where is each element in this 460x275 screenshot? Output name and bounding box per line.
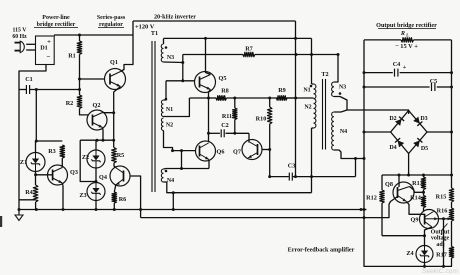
svg-text:Z3: Z3	[79, 192, 86, 199]
svg-text:115 V: 115 V	[13, 28, 28, 34]
wire Z3 to rail	[95, 201, 97, 210]
svg-text:R14: R14	[410, 195, 421, 202]
svg-text:R1: R1	[68, 53, 76, 60]
Q5 emitter down	[209, 90, 211, 143]
Q7 collector drop	[248, 133, 250, 142]
svg-text:Q6: Q6	[217, 149, 225, 156]
svg-text:R7: R7	[245, 46, 253, 53]
svg-text:N1: N1	[303, 88, 310, 94]
wire Q2 collector to Q1 emitter line	[103, 112, 114, 114]
wiper wire to R16	[438, 218, 450, 220]
Q6 base wire	[173, 150, 196, 152]
svg-text:R2: R2	[66, 100, 74, 107]
resistor R3	[60, 145, 65, 158]
svg-text:D3: D3	[420, 116, 427, 122]
svg-text:R8: R8	[221, 88, 229, 95]
svg-text:R3: R3	[48, 148, 56, 155]
wire R2 to Q2 base	[80, 108, 89, 115]
ground symbol	[18, 210, 20, 216]
R7 tap vertical	[182, 55, 184, 81]
svg-text:Q7: Q7	[233, 149, 241, 156]
svg-text:R11: R11	[222, 113, 232, 120]
rail2 drop to bottom rail	[364, 218, 452, 267]
N3 top lead to line	[163, 38, 165, 44]
svg-text:R5: R5	[117, 152, 125, 159]
resistor R5	[112, 148, 117, 163]
N4 top lead	[164, 168, 167, 171]
svg-text:T1: T1	[151, 30, 158, 37]
transformer T1 core	[151, 41, 153, 192]
pot adjust annotation	[442, 224, 448, 231]
svg-text:+: +	[47, 39, 51, 46]
svg-text:L: L	[405, 33, 409, 38]
svg-text:Output: Output	[431, 230, 450, 236]
node Q1 base tap	[78, 78, 81, 81]
diode bridge D2 D3 D4 D5	[391, 111, 427, 154]
line N3-top to T2 primary top	[164, 37, 312, 39]
wire Q1 emitter down	[114, 87, 121, 148]
svg-text:60 Hz: 60 Hz	[12, 34, 27, 40]
T1 winding N4	[161, 169, 163, 182]
N4(T1) top lead line	[166, 168, 209, 170]
wire D1+ output to R1 and +120 rail corner	[54, 34, 133, 36]
svg-text:N2: N2	[304, 105, 311, 111]
N2 bottom lead to Q6 base	[164, 131, 173, 151]
drop to rail1	[172, 193, 174, 210]
T2 primary winding N1/N2	[314, 84, 316, 128]
svg-text:R6: R6	[119, 196, 127, 203]
svg-text:N4: N4	[340, 129, 347, 135]
svg-text:C5: C5	[430, 78, 438, 85]
ground rail (rail1)	[19, 209, 367, 211]
resistor R4	[33, 185, 38, 202]
bridge left vertex to bus	[364, 131, 391, 133]
svg-text:T2: T2	[321, 71, 328, 78]
svg-text:R12: R12	[366, 195, 377, 202]
wire plug to D1	[26, 43, 35, 45]
amp bottom edge	[382, 235, 425, 237]
resistor R1	[79, 35, 81, 41]
svg-text:D4: D4	[389, 145, 396, 151]
wire Q3 base	[36, 174, 53, 176]
wire R1 bottom down to base tap, C1, R2	[79, 54, 81, 95]
wire Q2 emitter down to node line	[102, 128, 105, 141]
wire Z2 to Z3	[95, 168, 97, 183]
wire C1 node down to Z1	[35, 90, 37, 142]
svg-text:Z4: Z4	[406, 250, 413, 257]
svg-text:Q8: Q8	[385, 181, 393, 188]
N3 top lead from R7 line	[334, 55, 338, 83]
N4 bottom lead	[164, 182, 312, 193]
svg-text:Power-line: Power-line	[42, 15, 70, 21]
svg-text:R4: R4	[25, 189, 33, 196]
svg-text:Series-pass: Series-pass	[97, 15, 126, 21]
error amp top edge	[382, 174, 452, 176]
centre tap N3/N4 to bridge top	[334, 97, 409, 115]
T1 winding N3	[161, 44, 163, 62]
svg-text:C1: C1	[25, 76, 33, 83]
svg-text:R9: R9	[278, 87, 286, 94]
vertical T2 primary bottom down to N4 line	[311, 128, 313, 193]
resistor R2	[77, 95, 82, 108]
svg-text:N2: N2	[166, 123, 173, 129]
svg-text:bridge rectifier: bridge rectifier	[37, 22, 76, 28]
T1 centre tap to R8 line	[164, 98, 190, 117]
primary leads	[312, 83, 314, 85]
vertical N3-top line down to T2 primary top	[311, 38, 313, 84]
svg-text:R15: R15	[436, 194, 447, 201]
Q6 emitter down	[208, 160, 210, 169]
node line y=140 (Q2 emitter / Z2 / R5)	[80, 139, 114, 141]
svg-text:SeekIC.com: SeekIC.com	[422, 268, 458, 275]
vertical from +120 corner down through centre tap to C3 line	[295, 21, 297, 177]
cross-couple wire	[181, 151, 183, 169]
output bus right edge	[451, 40, 453, 188]
T2 secondary N3	[332, 82, 334, 97]
wire R3 bottom to Q3 collector	[61, 158, 63, 168]
drop from wiper line to bottom rail	[443, 219, 445, 267]
wire rail to R4 bottom	[19, 199, 36, 201]
wire Q3 emitter to ground rail	[61, 183, 64, 210]
N3 bottom lead	[164, 61, 183, 64]
svg-text:Q1: Q1	[110, 59, 118, 66]
bypass wire to Z3 top	[80, 140, 96, 181]
svg-text:N3: N3	[339, 85, 346, 91]
wire D1- to left rail	[19, 65, 46, 210]
bridge rectifier D1 (box)	[36, 36, 55, 65]
svg-text:C2: C2	[221, 122, 229, 129]
Q5 base wire	[166, 80, 195, 82]
T1 winding N2	[161, 118, 163, 131]
Q7 base wire to R10 line	[262, 149, 270, 151]
svg-text:− 15 V +: − 15 V +	[395, 43, 418, 50]
svg-text:N3: N3	[167, 55, 174, 61]
svg-text:Q9: Q9	[411, 217, 419, 224]
svg-text:C4: C4	[393, 61, 401, 68]
Q9 emitter drop	[425, 227, 433, 236]
svg-text:N4: N4	[167, 178, 174, 184]
svg-text:adj: adj	[436, 242, 444, 248]
wire Q4 base to feedback line	[130, 176, 141, 218]
+120V rail top	[133, 20, 296, 22]
svg-text:R: R	[400, 30, 405, 37]
svg-text:Error-feedback amplifier: Error-feedback amplifier	[288, 247, 355, 254]
bridge bottom drop to amp top edge	[408, 154, 410, 176]
resistor R6	[112, 192, 117, 203]
svg-text:−: −	[47, 53, 51, 61]
wire Q1 base	[80, 78, 105, 80]
svg-text:R17: R17	[436, 252, 447, 259]
output bus left edge	[363, 40, 365, 218]
T2 secondary N4	[332, 112, 334, 150]
scan artifact bottom-left	[0, 216, 2, 227]
svg-text:D2: D2	[389, 116, 396, 122]
T1 winding N1	[161, 100, 163, 117]
svg-text:Output bridge rectifier: Output bridge rectifier	[376, 22, 437, 29]
svg-text:+: +	[403, 64, 407, 71]
node line y=141 left (Z1 / R3)	[36, 140, 62, 142]
svg-text:regulator: regulator	[99, 22, 123, 28]
feedback rail (rail2)	[141, 217, 364, 219]
svg-text:C3: C3	[288, 163, 296, 170]
bridge right vertex to right edge	[427, 131, 452, 133]
wire R5 bottom to Q4 collector	[114, 163, 116, 168]
svg-text:Q4: Q4	[99, 174, 107, 181]
N1 top lead to Q5 base node	[164, 81, 167, 100]
svg-text:Q3: Q3	[70, 169, 78, 176]
svg-text:N1: N1	[166, 107, 173, 113]
svg-text:D5: D5	[421, 146, 428, 152]
N4 bottom lead to bus	[334, 150, 364, 159]
svg-text:20-kHz inverter: 20-kHz inverter	[154, 14, 196, 21]
svg-text:Q5: Q5	[219, 75, 227, 82]
Q8 emitter to rail2	[389, 197, 398, 205]
svg-text:Q2: Q2	[93, 102, 101, 109]
node R1 top	[78, 34, 81, 37]
wire Z1 bottom to R4 and Q3 base tap	[35, 172, 37, 186]
wire R14 to Q9 collector	[423, 208, 425, 212]
C3 riser	[355, 159, 357, 177]
R8/R9 node line	[189, 97, 208, 99]
rail2 extension to Q8 emitter	[364, 204, 389, 218]
wire Q1 collector to +120 rail	[121, 21, 134, 72]
Q5 collector to +rail line	[206, 38, 211, 74]
line to T2 primary centre tap	[287, 97, 313, 99]
svg-text:R10: R10	[256, 116, 267, 123]
svg-text:R16: R16	[437, 208, 448, 215]
svg-text:voltage: voltage	[431, 236, 450, 242]
